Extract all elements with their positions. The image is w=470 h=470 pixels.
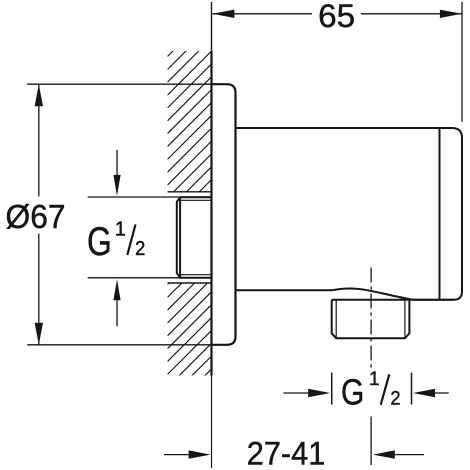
outlet G1/2 left tick bbox=[331, 373, 333, 405]
dim dia67 bottom arrowhead bbox=[35, 323, 43, 345]
dim 27-41 right arrowhead bbox=[373, 450, 395, 458]
outlet G1/2 label slash bbox=[381, 374, 390, 405]
outlet nipple top line bbox=[332, 299, 454, 301]
svg-text:Ø67: Ø67 bbox=[6, 198, 66, 235]
dim 27-41 left arrowhead bbox=[189, 450, 211, 458]
dim 65 line left segment bbox=[212, 13, 312, 15]
svg-text:65: 65 bbox=[318, 0, 355, 34]
svg-text:1: 1 bbox=[369, 369, 380, 390]
outlet centerline bbox=[370, 268, 372, 372]
extension line flange bottom (for dia 67) bbox=[27, 344, 211, 346]
extension line flange top (for dia 67) bbox=[27, 83, 211, 85]
inlet nipple root bottom bbox=[180, 274, 211, 276]
wall hole lower boundary bbox=[168, 282, 212, 284]
wall hole upper boundary bbox=[168, 191, 212, 193]
inlet G1/2 lower arrowhead bbox=[113, 279, 120, 300]
wall hatching upper band bbox=[168, 13, 212, 237]
svg-text:27-41: 27-41 bbox=[247, 435, 325, 470]
outlet G1/2 left arrowhead bbox=[308, 389, 330, 397]
svg-text:1: 1 bbox=[115, 219, 126, 241]
wall line upper thin segment bbox=[211, 2, 213, 51]
inlet nipple root top bbox=[180, 199, 211, 201]
inlet G1/2 label slash bbox=[127, 225, 135, 256]
dim 65 line right segment bbox=[361, 13, 462, 15]
outlet G1/2 right tick bbox=[411, 373, 413, 405]
wall line lower thin segment bbox=[211, 376, 213, 469]
outlet G1/2 right arrowhead bbox=[413, 389, 435, 397]
svg-text:2: 2 bbox=[135, 238, 145, 260]
outlet nipple thread root lines bbox=[335, 300, 337, 338]
inlet G1/2 extension line bottom bbox=[88, 277, 212, 279]
dim 65 right arrowhead bbox=[440, 10, 462, 18]
svg-text:2: 2 bbox=[390, 389, 400, 410]
inlet G1/2 extension line top bbox=[88, 196, 212, 198]
dim dia67 top arrowhead bbox=[35, 84, 43, 106]
svg-text:G: G bbox=[341, 372, 364, 413]
inlet nipple thread end line bbox=[179, 197, 181, 277]
dim 65 right extension line bbox=[461, 2, 463, 122]
dim 65 left arrowhead bbox=[212, 10, 234, 18]
inlet G1/2 upper arrowhead bbox=[113, 175, 120, 196]
dim 27-41 right arrow line bbox=[395, 454, 424, 456]
outlet nipple outline bbox=[332, 300, 410, 339]
inlet nipple outer edge with chamfers bbox=[177, 197, 180, 277]
inlet nipple crest top bbox=[180, 196, 211, 198]
inlet G1/2 upper arrow line bbox=[116, 150, 118, 175]
dim 27-41 left arrow line bbox=[164, 454, 189, 456]
body outline bbox=[236, 128, 463, 300]
outlet G1/2 right arrow line bbox=[435, 392, 449, 394]
wall hatching lower band bbox=[168, 240, 212, 413]
dim dia67 line upper segment bbox=[38, 84, 40, 196]
dim dia67 line lower segment bbox=[38, 234, 40, 345]
svg-text:G: G bbox=[87, 220, 112, 264]
outlet G1/2 left arrow line bbox=[283, 392, 309, 394]
flange outline bbox=[212, 84, 236, 345]
body end cap inner line bbox=[439, 128, 441, 300]
wall line thick segment along wall section bbox=[210, 51, 212, 376]
inlet G1/2 lower arrow line bbox=[116, 300, 118, 326]
inlet nipple crest bottom bbox=[180, 277, 211, 279]
